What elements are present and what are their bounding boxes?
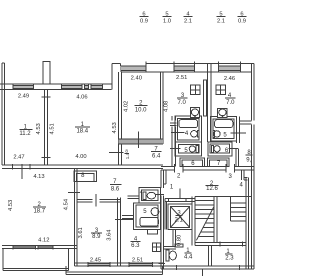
room 8.9 right wall — [117, 197, 119, 265]
svg-text:4.53: 4.53 — [8, 200, 14, 211]
balcony lower — [66, 266, 163, 274]
entrance door leaf — [202, 269, 204, 276]
stair break diagonal — [196, 207, 213, 240]
window room2 2.40 — [121, 62, 146, 73]
svg-text:4: 4 — [140, 190, 143, 195]
svg-text:2.46: 2.46 — [224, 76, 235, 82]
svg-text:4.53: 4.53 — [112, 122, 118, 133]
svg-text:1: 1 — [170, 184, 174, 190]
svg-text:2.47: 2.47 — [13, 155, 24, 161]
upper bath right box — [211, 117, 237, 142]
svg-text:5: 5 — [223, 132, 227, 138]
balcony label 6/0.9 right — [238, 12, 246, 25]
room 18.7 bottom wall — [2, 245, 77, 247]
svg-text:6.4: 6.4 — [152, 153, 161, 159]
stair hall left wall — [160, 170, 162, 188]
svg-text:4.00: 4.00 — [75, 154, 86, 160]
svg-text:4.4: 4.4 — [184, 254, 193, 260]
svg-text:6.3: 6.3 — [131, 243, 140, 249]
toilet WC right — [211, 145, 220, 152]
svg-text:0.9: 0.9 — [238, 19, 246, 25]
room label 7/6.4 — [152, 147, 161, 160]
closet8 upper label — [125, 149, 130, 160]
svg-text:4: 4 — [240, 182, 244, 188]
door 8.9 leaf — [95, 194, 97, 206]
stair hall top wall — [161, 166, 175, 168]
window 18.7 part2 — [38, 245, 53, 250]
svg-text:12.6: 12.6 — [206, 186, 218, 192]
elevator shaft left wall — [164, 199, 166, 230]
balcony label 4/2.1 — [184, 12, 192, 25]
door WC leafs — [127, 195, 139, 197]
toilet room top wall — [164, 246, 176, 248]
svg-text:18.7: 18.7 — [33, 209, 45, 215]
room label 7/8.6 — [111, 179, 120, 192]
svg-text:5: 5 — [143, 209, 147, 215]
room label 1/11.2 — [19, 125, 31, 137]
door2 ticks — [173, 164, 175, 172]
wall rooms 11.2|18.4 — [44, 90, 46, 165]
svg-text:2.51: 2.51 — [176, 75, 187, 81]
room label 1/4.4 — [184, 248, 193, 260]
toilet lower WC — [143, 192, 156, 200]
top wall right section inner — [121, 71, 252, 73]
balcony label 5/2.1 — [217, 12, 225, 25]
hall door left lines — [170, 122, 177, 124]
stair-elevator wall — [191, 197, 193, 246]
toilet upper left — [191, 109, 198, 117]
svg-text:3: 3 — [229, 174, 233, 180]
window 4.06 part2 — [85, 84, 89, 89]
inter-apartment wall left section — [2, 164, 163, 166]
svg-text:4.02: 4.02 — [123, 101, 129, 112]
stair middle wall — [213, 197, 215, 243]
window room3 2.51 — [174, 62, 195, 73]
elevator door leaf — [179, 189, 181, 199]
svg-text:2.3: 2.3 — [225, 256, 234, 262]
toilet WC left — [189, 145, 198, 152]
bath door left leaf — [171, 132, 185, 134]
wall kitchen|room3 — [160, 72, 162, 144]
svg-text:9,: 9, — [246, 157, 251, 163]
room label 2/18.7 — [33, 202, 45, 215]
hall door right lines — [240, 120, 252, 122]
inter-apartment wall rooms3|4 — [207, 63, 209, 142]
svg-text:8: 8 — [81, 173, 85, 179]
svg-text:2.51: 2.51 — [132, 258, 143, 264]
svg-text:18.4: 18.4 — [76, 128, 88, 134]
door 18.7 leaf — [68, 191, 80, 193]
niche above toilet room — [175, 244, 183, 247]
landing door tick — [219, 242, 221, 247]
wall room 18.4|kitchen — [118, 72, 120, 165]
svg-text:8: 8 — [125, 149, 128, 154]
stove 6.3 — [152, 243, 160, 251]
elevator cabin — [168, 204, 192, 229]
window 8.9 — [88, 262, 110, 267]
door numbers — [170, 174, 244, 191]
window 18.7 part1 — [13, 245, 35, 250]
duct box right — [207, 158, 229, 167]
balcony 18.7 — [3, 249, 68, 271]
svg-text:3.64: 3.64 — [107, 229, 113, 241]
room label 2/10.0 — [135, 101, 147, 114]
svg-text:2.1: 2.1 — [184, 19, 192, 25]
sink lower bath — [151, 208, 159, 216]
door bath leafs — [122, 214, 134, 216]
landing door tick right — [242, 242, 244, 247]
WC box left — [175, 142, 202, 156]
sink upper right — [213, 131, 220, 138]
room label 1/18.4 — [76, 122, 88, 134]
top wall right section outer — [112, 62, 120, 64]
vent wall kitchens — [204, 80, 207, 116]
right outer wall — [250, 63, 252, 120]
WC box right — [208, 142, 232, 156]
svg-text:2.40: 2.40 — [131, 75, 142, 81]
balcony door caps 2.47 — [11, 164, 13, 170]
label 8/9 right edge — [246, 150, 251, 163]
svg-text:0.9: 0.9 — [140, 19, 148, 25]
svg-text:4.53: 4.53 — [36, 123, 42, 134]
bottom wall rooms 8.9/6.3 — [75, 262, 164, 264]
svg-text:4.12: 4.12 — [38, 237, 49, 243]
stair left flight treads — [195, 200, 214, 236]
window 4.06 part3 — [91, 84, 103, 89]
door room18.4 leaf — [109, 152, 123, 154]
door4 niche — [241, 170, 243, 180]
svg-text:1.0: 1.0 — [163, 19, 171, 25]
svg-text:4.08: 4.08 — [163, 101, 169, 112]
wall 18.7|8.9 — [74, 169, 76, 266]
svg-text:7.0: 7.0 — [178, 100, 187, 106]
dim ticks on wall — [42, 96, 51, 98]
elevator shaft front — [165, 198, 195, 200]
svg-text:2.1: 2.1 — [175, 217, 184, 223]
svg-text:4: 4 — [185, 131, 189, 137]
stairs top line — [195, 196, 252, 198]
kitchen bottom wall — [119, 139, 163, 143]
room label 4/6.3 — [131, 237, 140, 249]
svg-text:4.13: 4.13 — [33, 174, 44, 180]
WC right door leaf — [229, 148, 239, 150]
top wall left section — [0, 83, 111, 85]
bath door right leaf — [230, 132, 246, 134]
svg-text:4.06: 4.06 — [76, 94, 87, 100]
door 6.3 leaf — [159, 263, 166, 265]
elevator label 3/2.1 — [175, 211, 184, 224]
svg-text:10.0: 10.0 — [135, 108, 147, 114]
door 8.9-6.3 leaf — [115, 219, 133, 221]
room label 2/12.6 — [206, 181, 218, 192]
room label 1/2.3 — [225, 249, 234, 261]
stair right flight treads — [230, 203, 246, 221]
room 8.9 top wall — [77, 198, 92, 200]
wall right of ducts — [235, 149, 237, 167]
sink upper left — [191, 130, 200, 137]
stair right flight edge — [229, 197, 231, 222]
room label 3/7.0 — [178, 93, 187, 106]
svg-text:2.45: 2.45 — [90, 258, 101, 264]
toilet room fixture — [166, 250, 176, 261]
window 2.49 — [13, 84, 34, 89]
vestibule left wall — [208, 246, 210, 266]
stove room3 — [191, 85, 201, 95]
room label 4/7.0 — [226, 93, 235, 106]
lower WC box room4 — [139, 188, 160, 203]
hall wall left of bath — [171, 116, 173, 120]
window room4 2.46 — [219, 62, 241, 73]
door3 ticks — [225, 164, 227, 172]
WC left door leaf — [170, 148, 181, 150]
svg-text:11.2: 11.2 — [19, 131, 31, 137]
stove room4 — [216, 85, 226, 95]
svg-text:8.6: 8.6 — [111, 186, 120, 192]
window 4.06 part1 — [62, 84, 83, 89]
stair right wall — [245, 178, 247, 269]
svg-text:2: 2 — [177, 174, 181, 180]
balcony label 5/1.0 — [163, 12, 171, 25]
landing bottom double — [195, 242, 246, 244]
step wall — [111, 63, 113, 89]
svg-text:2.49: 2.49 — [18, 94, 29, 100]
svg-text:2.1: 2.1 — [217, 19, 225, 25]
lower bath box room5 — [134, 203, 161, 229]
porch ticks — [176, 265, 178, 270]
upper bath left box — [175, 116, 202, 142]
svg-text:7.0: 7.0 — [226, 100, 235, 106]
balcony door leaf — [21, 169, 23, 179]
balcony label 6/0.9 left — [140, 12, 148, 25]
window 6.3 — [129, 262, 152, 267]
svg-text:4.51: 4.51 — [49, 123, 55, 134]
tub upper right — [215, 120, 233, 128]
elevator diagonals — [171, 207, 190, 228]
closet 8 lower — [74, 171, 96, 182]
door1 niche — [165, 170, 167, 184]
left outer wall — [1, 63, 3, 165]
tub lower bath — [140, 217, 159, 226]
wall right of bath — [236, 117, 238, 144]
wall below elevator — [172, 230, 174, 247]
svg-text:3.61: 3.61 — [78, 227, 84, 238]
duct box left — [180, 158, 205, 167]
toilet niche right — [218, 109, 227, 118]
toilet upper right — [219, 109, 226, 117]
tub upper left — [179, 120, 198, 128]
bottom wall right section — [161, 265, 254, 267]
svg-text:4.54: 4.54 — [63, 198, 69, 210]
duct niche below bath — [148, 229, 158, 234]
pillar — [43, 61, 50, 84]
svg-text:8.9: 8.9 — [92, 234, 101, 240]
toilet niche left — [190, 108, 199, 118]
kitchen door leaf — [138, 132, 140, 149]
door1 leaf — [155, 193, 164, 195]
room label 3/8.9 — [92, 228, 101, 240]
